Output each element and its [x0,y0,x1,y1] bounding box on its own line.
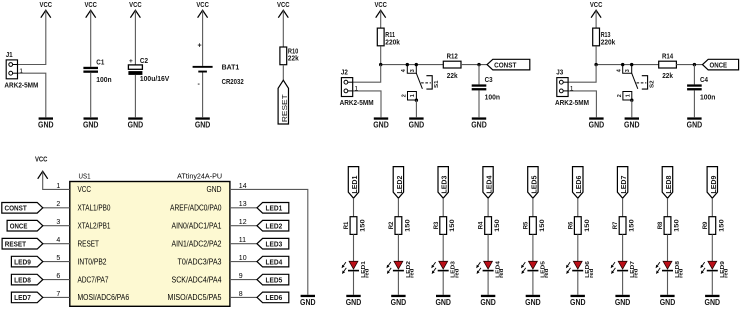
svg-text:150: 150 [584,219,591,232]
svg-text:S1: S1 [434,80,440,88]
svg-text:GND: GND [409,121,425,130]
wire LED7 flag to R7 [622,198,624,217]
svg-text:LED9: LED9 [709,176,718,194]
pushbutton switch S2 [617,65,656,100]
wire C1 to GND [90,73,92,117]
wire LED4 to GND [487,271,489,295]
net label LED6 (column) [573,167,584,199]
svg-text:R2: R2 [388,221,395,229]
power flag VCC (R10) [277,2,290,18]
pin 11 number [239,237,246,244]
ground (J2) [373,117,389,129]
svg-text:GND: GND [373,121,389,130]
svg-text:12: 12 [239,219,247,226]
svg-text:VCC: VCC [196,2,209,9]
wire LED7 to GND [622,271,624,295]
svg-text:11: 11 [239,237,246,244]
IC U1 ATtiny24A-PU [70,171,230,306]
wire R14 to node 2 [676,64,702,66]
svg-text:R10: R10 [288,48,298,55]
svg-text:220k: 220k [601,39,616,46]
ground (LED4) [480,295,496,307]
svg-text:2: 2 [56,201,60,208]
resistor R9 150 [702,217,725,235]
ground (LED8) [660,295,676,307]
connector J3 ARK2-5MM [555,70,589,108]
ground (S1) [409,117,425,129]
svg-text:100n: 100n [96,77,111,84]
svg-text:red: red [634,268,640,278]
svg-text:100n: 100n [700,95,715,102]
wire LED1 flag to R1 [353,198,355,217]
svg-text:LED3: LED3 [266,239,283,248]
svg-text:GND: GND [300,298,316,307]
pin 12 number [239,219,247,226]
wire LED1 to GND [353,271,355,295]
svg-text:3: 3 [56,219,60,226]
svg-text:GND: GND [346,298,362,307]
svg-text:1: 1 [354,86,358,93]
svg-text:GND: GND [705,298,721,307]
svg-text:5: 5 [56,255,60,262]
resistor R12 22k [443,54,461,80]
wire S2 to GND [631,100,633,117]
svg-text:150: 150 [404,219,411,232]
wire R10 to RESET flag [282,65,284,81]
svg-text:R7: R7 [612,221,619,229]
svg-text:LED1: LED1 [350,176,359,194]
svg-text:150: 150 [449,219,456,232]
svg-text:13: 13 [239,201,247,208]
wire LED4 flag to R4 [487,198,489,217]
svg-text:R12: R12 [447,54,458,61]
net label LED3 (column) [438,167,449,199]
svg-text:red: red [544,268,550,278]
svg-text:US1: US1 [79,171,91,180]
wire J3 pin2 to GND [568,91,596,117]
svg-text:ARK2-5MM: ARK2-5MM [4,83,38,90]
svg-text:VCC: VCC [374,2,387,9]
LED LED7 red [611,261,640,278]
svg-text:GND: GND [83,121,99,130]
svg-text:VCC: VCC [277,2,290,9]
svg-text:AREF/ADC0/PA0: AREF/ADC0/PA0 [170,204,222,213]
ground (C2) [128,117,144,129]
svg-text:LED5: LED5 [529,176,538,194]
wire LED9 flag to R9 [711,198,713,217]
junction node D [693,63,696,66]
ground (LED9) [705,295,721,307]
svg-text:RESET: RESET [5,239,27,248]
ground (LED2) [391,295,407,307]
wire R8 to LED8 [667,234,669,261]
power flag VCC (R13) [590,2,603,18]
svg-text:CR2032: CR2032 [222,79,244,86]
LED LED2 red [387,261,416,278]
svg-text:C1: C1 [96,59,104,66]
svg-text:LED6: LED6 [266,293,283,302]
wire U1 pin 2 stub [43,207,70,209]
ground (LED5) [525,295,541,307]
svg-text:7: 7 [56,291,60,298]
svg-text:MOSI/ADC6/PA6: MOSI/ADC6/PA6 [78,293,130,302]
svg-text:GND: GND [589,121,605,130]
resistor R11 220k [377,28,400,46]
net label LED3 (pin 11) [257,238,289,249]
pin 1 number [56,183,60,190]
wire VCC to C2 [134,10,136,65]
wire R13 to node [595,46,597,64]
LED LED3 red [431,260,460,278]
svg-text:LED2: LED2 [395,176,404,194]
svg-text:VCC: VCC [35,156,48,163]
ground (C3) [471,117,487,129]
wire VCC to C1 [90,10,92,66]
wire U1 pin 12 stub [230,225,257,227]
svg-text:GND: GND [207,185,222,194]
svg-text:S2: S2 [649,80,655,88]
svg-text:VCC: VCC [84,2,97,9]
svg-text:1: 1 [625,94,631,97]
svg-text:R13: R13 [601,32,611,39]
svg-text:+: + [198,43,202,50]
resistor R4 150 [478,217,501,235]
svg-text:R1: R1 [343,221,350,229]
svg-text:GND: GND [660,298,676,307]
resistor R14 22k [659,54,677,80]
pin 6 number [56,273,60,280]
net label ONCE (pin 3) [7,220,43,231]
wire J1 pin2 to GND [18,73,46,117]
svg-text:SCK/ADC4/PA4: SCK/ADC4/PA4 [172,275,222,284]
net label LED5 (column) [528,167,539,199]
wire VCC to R11 [380,10,382,28]
wire R4 to LED4 [487,234,489,261]
svg-text:LED3: LED3 [440,176,449,194]
ground (U1 pin 14) [300,295,316,307]
LED LED8 red [656,260,685,278]
svg-text:LED5: LED5 [266,275,283,284]
junction S1 pin 4 [406,63,409,66]
wire U1 pin 14 to GND [230,189,308,294]
pin 14 number [239,183,247,190]
resistor R1 150 [343,217,366,235]
wire U1 pin 6 stub [43,279,70,281]
net label LED7 (pin 7) [11,292,42,303]
svg-text:22k: 22k [288,56,299,63]
wire R9 to LED9 [711,234,713,261]
svg-text:LED8: LED8 [664,176,673,194]
wire R6 to LED6 [577,234,579,261]
svg-text:150: 150 [629,219,636,232]
svg-text:C3: C3 [485,77,493,84]
junction node A [379,63,382,66]
pin 5 number [56,255,60,262]
LED LED1 red [342,260,371,278]
net label RESET [278,80,289,124]
svg-text:MISO/ADC5/PA5: MISO/ADC5/PA5 [168,293,222,302]
wire BAT1 to GND [202,73,204,118]
resistor R6 150 [567,217,590,235]
LED LED4 red [476,260,505,278]
wire LED3 flag to R3 [442,198,444,217]
svg-text:J2: J2 [341,70,348,77]
resistor R5 150 [523,217,546,235]
svg-text:C4: C4 [700,77,708,84]
svg-text:VCC: VCC [40,2,53,9]
wire R1 to LED1 [353,234,355,261]
net label LED2 (column) [393,167,404,199]
svg-text:GND: GND [471,121,487,130]
svg-text:ATtiny24A-PU: ATtiny24A-PU [177,171,222,180]
svg-text:VCC: VCC [590,2,603,9]
svg-text:4: 4 [617,69,623,72]
wire C4 to GND [693,90,695,117]
wire U1 pin 13 stub [230,207,257,209]
battery BAT1 CR2032 [193,43,244,89]
svg-text:J3: J3 [556,70,563,77]
pin 7 number [56,291,60,298]
svg-text:ARK2-5MM: ARK2-5MM [555,100,589,107]
svg-text:CONST: CONST [5,204,28,213]
net label LED8 (pin 6) [11,274,42,285]
svg-text:GND: GND [624,121,640,130]
junction S2 pin 3 [630,63,633,66]
wire node to C3 [478,65,480,85]
wire LED9 to GND [711,271,713,295]
ground (C4) [687,117,703,129]
ground (C1) [83,117,99,129]
capacitor C1 100n [83,59,111,84]
svg-text:6: 6 [56,273,60,280]
wire S1 to GND [415,100,417,117]
net label LED9 (column) [707,167,718,199]
net label ONCE [703,59,739,70]
pin 13 number [239,201,247,208]
wire C2 to GND [134,75,136,117]
wire node to R14 [596,64,659,66]
wire J3 pin1 to node [568,65,596,83]
resistor R2 150 [388,217,411,235]
pin 8 number [239,291,243,298]
wire VCC to U1 pin 1 [43,171,70,189]
svg-text:R14: R14 [662,54,673,61]
power flag VCC (U1 pin 1) [35,156,48,179]
svg-text:ONCE: ONCE [10,221,28,230]
capacitor C3 100n [472,77,500,102]
wire R3 to LED3 [442,234,444,261]
svg-text:R9: R9 [702,221,709,229]
wire U1 pin 11 stub [230,243,257,245]
svg-text:BAT1: BAT1 [222,65,240,72]
net label LED7 (column) [617,167,628,199]
wire R11 to node [380,46,382,64]
svg-text:1: 1 [19,68,23,75]
svg-text:GND: GND [570,298,586,307]
svg-text:GND: GND [480,298,496,307]
svg-text:R8: R8 [657,221,664,229]
svg-text:red: red [589,268,595,278]
wire U1 pin 4 stub [43,243,70,245]
wire U1 pin 7 stub [43,296,70,298]
svg-text:R6: R6 [567,221,574,229]
wire VCC to R13 [595,10,597,28]
svg-text:GND: GND [128,121,144,130]
svg-text:150: 150 [718,219,725,232]
svg-text:GND: GND [38,121,54,130]
svg-text:AIN0/ADC1/PA1: AIN0/ADC1/PA1 [172,222,222,231]
svg-text:RESET: RESET [280,94,289,122]
svg-text:1: 1 [56,183,60,190]
svg-text:LED9: LED9 [14,257,31,266]
svg-text:INT0/PB2: INT0/PB2 [78,257,107,266]
svg-text:red: red [723,268,729,278]
LED LED5 red [521,260,550,278]
svg-text:LED4: LED4 [266,257,284,266]
svg-text:VCC: VCC [129,2,142,9]
svg-text:9: 9 [239,273,243,280]
wire LED2 to GND [397,271,399,295]
net label LED1 (column) [348,167,359,199]
svg-text:1: 1 [570,86,574,93]
wire LED6 to GND [577,271,579,295]
wire R5 to LED5 [532,234,534,261]
net label LED8 (column) [662,167,673,199]
wire LED8 to GND [667,271,669,295]
wire LED5 flag to R5 [532,198,534,217]
svg-text:1: 1 [410,94,416,97]
net label RESET (pin 4) [2,238,43,249]
svg-text:+: + [129,58,133,65]
junction S2 pin 1 [630,99,633,102]
net label LED9 (pin 5) [11,256,42,267]
junction S1 pin 3 [415,63,418,66]
wire U1 pin 10 stub [230,261,257,263]
pin 9 number [239,273,243,280]
svg-text:GND: GND [435,298,451,307]
capacitor C4 100n [687,77,715,102]
resistor R13 220k [593,28,616,46]
svg-text:XTAL2/PB1: XTAL2/PB1 [78,222,111,231]
svg-text:10: 10 [239,255,247,262]
svg-text:LED7: LED7 [14,293,31,302]
svg-text:red: red [410,268,416,278]
ground (J1) [38,117,54,129]
connector J2 ARK2-5MM [340,70,374,108]
wire R7 to LED7 [622,234,624,261]
wire LED3 to GND [442,271,444,295]
resistor R7 150 [612,217,635,235]
junction node C [594,63,597,66]
wire U1 pin 5 stub [43,261,70,263]
svg-text:150: 150 [360,219,367,232]
wire R2 to LED2 [397,234,399,261]
wire J2 pin1 to node [353,65,381,83]
svg-text:150: 150 [539,219,546,232]
wire LED2 flag to R2 [397,198,399,217]
svg-text:LED1: LED1 [266,204,283,213]
svg-text:LED6: LED6 [574,176,583,194]
net label LED6 (pin 8) [257,292,289,303]
svg-text:RESET: RESET [78,240,100,249]
ground (LED6) [570,295,586,307]
svg-text:GND: GND [195,121,211,130]
svg-text:LED2: LED2 [266,221,283,230]
pushbutton switch S1 [401,65,440,100]
svg-text:2: 2 [401,94,407,97]
wire U1 pin 8 stub [230,296,257,298]
resistor R8 150 [657,217,680,235]
svg-text:3: 3 [410,69,416,72]
svg-text:red: red [499,268,505,278]
svg-text:J1: J1 [6,52,13,59]
svg-text:XTAL1/PB0: XTAL1/PB0 [78,204,111,213]
wire LED8 flag to R8 [667,198,669,217]
net label LED4 (column) [483,167,494,199]
LED LED9 red [700,260,729,278]
svg-text:GND: GND [525,298,541,307]
pin 2 number [56,201,60,208]
junction S2 pin 4 [621,63,624,66]
junction node B [477,63,480,66]
junction S1 pin 1 [415,99,418,102]
svg-text:ARK2-5MM: ARK2-5MM [340,100,374,107]
svg-text:ADC7/PA7: ADC7/PA7 [78,275,109,284]
svg-text:22k: 22k [447,73,458,80]
svg-text:GND: GND [615,298,631,307]
svg-text:LED7: LED7 [619,176,628,194]
svg-text:R3: R3 [433,221,440,229]
svg-text:4: 4 [401,69,407,72]
wire LED5 to GND [532,271,534,295]
svg-text:220k: 220k [385,39,400,46]
connector J1 ARK2-5MM [4,52,38,90]
ground (J3) [589,117,605,129]
svg-text:4: 4 [56,237,60,244]
svg-text:R11: R11 [385,32,395,39]
svg-text:100u/16V: 100u/16V [140,76,170,83]
svg-text:VCC: VCC [78,185,92,194]
svg-text:2: 2 [617,94,623,97]
power flag VCC (C2) [129,2,142,18]
power flag VCC (BAT1) [196,2,209,18]
pin 4 number [56,237,60,244]
svg-text:GND: GND [391,298,407,307]
svg-text:GND: GND [687,121,703,130]
ground (BAT1) [195,117,211,129]
net label LED5 (pin 9) [257,274,289,285]
power flag VCC (J1) [40,2,53,18]
net label LED4 (pin 10) [257,256,289,267]
svg-text:3: 3 [625,69,631,72]
net label LED1 (pin 13) [257,203,289,214]
svg-text:R4: R4 [478,221,485,229]
wire VCC to BAT1 [202,10,204,66]
svg-text:8: 8 [239,291,243,298]
LED LED6 red [566,260,595,278]
svg-text:ONCE: ONCE [710,60,728,69]
net label CONST [487,59,530,70]
wire U1 pin 9 stub [230,279,257,281]
svg-text:T0/ADC3/PA3: T0/ADC3/PA3 [178,257,222,266]
ground (S2) [624,117,640,129]
wire J2 pin2 to GND [353,91,381,117]
svg-text:150: 150 [674,219,681,232]
wire LED6 flag to R6 [577,198,579,217]
svg-text:R5: R5 [523,221,530,229]
wire U1 pin 3 stub [43,225,70,227]
ground (LED7) [615,295,631,307]
